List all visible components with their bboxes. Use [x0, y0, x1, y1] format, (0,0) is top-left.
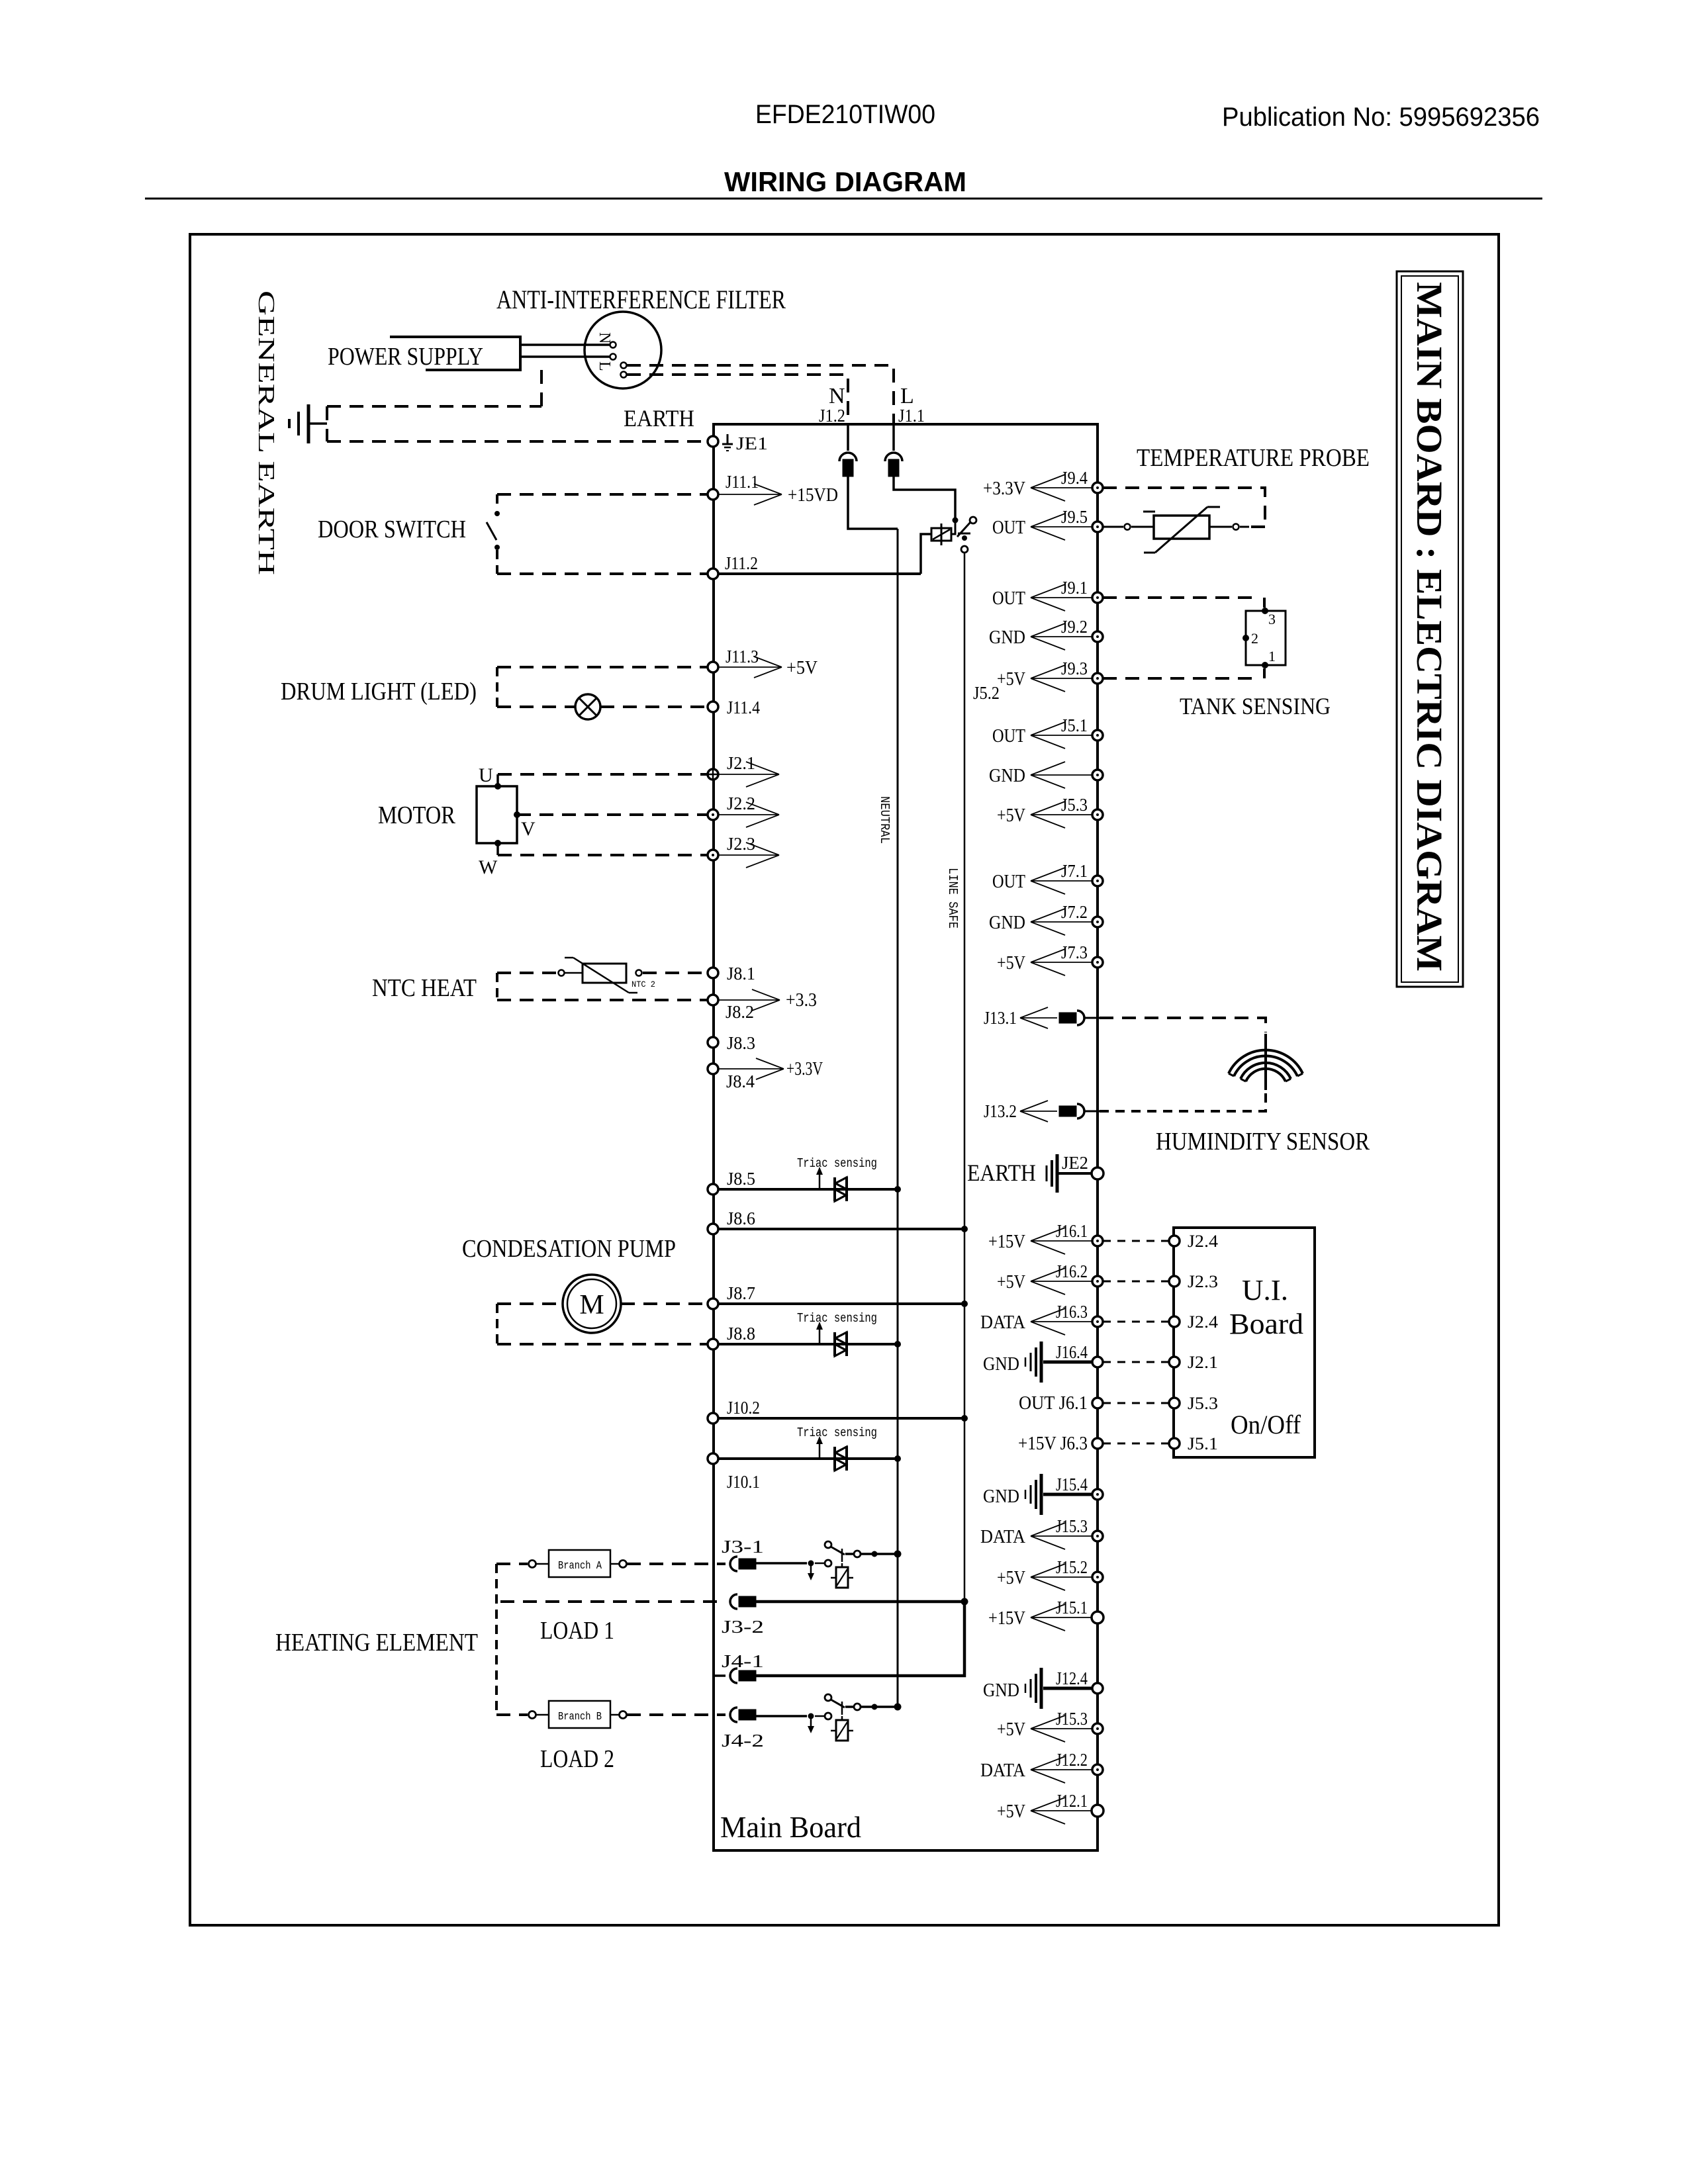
triac gate arrow on row y=2031	[819, 1328, 821, 1344]
arrow at y=1331	[1031, 880, 1092, 882]
anti-interference filter circle	[585, 312, 661, 388]
filter terminal output upper	[621, 363, 627, 369]
arrow at y=1025	[1031, 678, 1092, 679]
svg-text:J8.7: J8.7	[727, 1283, 755, 1303]
terminal J11.4	[708, 702, 718, 712]
svg-text:2: 2	[1251, 630, 1258, 647]
wire L fuse to relay contact	[894, 477, 955, 518]
main board outline	[714, 424, 1098, 1850]
terminal J7.1 y=1331	[1092, 876, 1103, 886]
wire dashed heating left vertical	[495, 1564, 498, 1715]
terminal J10.2	[708, 1413, 718, 1424]
wire dashed branch B to J4-2	[627, 1713, 726, 1716]
svg-text:+15V: +15V	[988, 1232, 1025, 1252]
arrow at y=903	[1031, 597, 1092, 598]
wire dashed power supply earth drop	[540, 370, 543, 406]
wire dashed door switch bottom	[497, 572, 708, 575]
svg-text:J2.4: J2.4	[1188, 1312, 1218, 1332]
svg-text:HEATING ELEMENT: HEATING ELEMENT	[275, 1629, 478, 1657]
svg-text:GND: GND	[989, 913, 1025, 933]
svg-text:J5.3: J5.3	[1061, 795, 1088, 815]
wire dashed J9.3 to tank pin 1	[1103, 677, 1260, 680]
arrow at y=737	[1031, 487, 1092, 488]
wire connector to relay row y=2593	[756, 1715, 807, 1717]
filter terminal output lower	[621, 372, 627, 378]
terminal J12.2 y=2674	[1092, 1764, 1103, 1775]
wire dashed drum light bottom right	[600, 705, 708, 708]
svg-text:J12.1: J12.1	[1056, 1791, 1088, 1811]
svg-text:J8.5: J8.5	[727, 1169, 755, 1189]
svg-text:OUT: OUT	[992, 726, 1025, 747]
svg-text:J15.3: J15.3	[1056, 1709, 1088, 1729]
arrow at y=1936	[1031, 1281, 1092, 1282]
svg-text:DATA: DATA	[980, 1527, 1026, 1547]
svg-text:Triac sensing: Triac sensing	[797, 1311, 877, 1326]
svg-text:EARTH: EARTH	[967, 1160, 1036, 1186]
svg-text:DOOR SWITCH: DOOR SWITCH	[318, 516, 466, 543]
terminal J15.3 y=2612	[1092, 1723, 1103, 1734]
arrow at J2.1	[718, 774, 779, 775]
tank pin 3	[1262, 608, 1268, 614]
wire dashed motor W to J2.3	[498, 854, 708, 856]
svg-text:Triac sensing: Triac sensing	[797, 1156, 877, 1171]
svg-text:J8.1: J8.1	[727, 964, 755, 983]
svg-text:J10.1: J10.1	[727, 1472, 760, 1492]
UI terminal J2.1	[1169, 1357, 1180, 1367]
wire dashed to branch A	[496, 1563, 528, 1565]
svg-text:OUT: OUT	[992, 588, 1025, 609]
terminal J8.5	[708, 1184, 718, 1195]
svg-text:HUMINDITY SENSOR: HUMINDITY SENSOR	[1156, 1128, 1370, 1156]
wire N fuse to neutral rail corner	[848, 477, 898, 529]
wire dashed branch A to J3-1	[627, 1563, 726, 1565]
svg-text:J11.4: J11.4	[727, 698, 760, 717]
terminal J11.1	[708, 489, 718, 500]
humidity sensor B1 arcs	[1229, 1050, 1303, 1073]
UI terminal J2.4	[1169, 1236, 1180, 1246]
svg-text:Board: Board	[1229, 1308, 1303, 1340]
motor node U	[494, 783, 501, 790]
terminal JE2	[1092, 1167, 1103, 1179]
side title box MAIN BOARD : ELECTRIC DIAGRAM	[1397, 271, 1463, 987]
triac symbol on row y=2204	[833, 1447, 836, 1471]
terminal J11.2	[708, 569, 718, 579]
wire dashed drum light left	[496, 667, 498, 707]
svg-text:OUT: OUT	[992, 872, 1025, 892]
svg-text:N: N	[829, 384, 845, 408]
svg-text:J10.2: J10.2	[727, 1398, 760, 1418]
svg-text:J16.4: J16.4	[1056, 1342, 1088, 1362]
svg-text:MAIN BOARD : ELECTRIC DIAGRAM: MAIN BOARD : ELECTRIC DIAGRAM	[1409, 282, 1450, 972]
arrow +3.3 at J8.2	[718, 999, 780, 1001]
svg-text:DATA: DATA	[980, 1312, 1026, 1333]
terminal J15.2 y=2383	[1092, 1572, 1103, 1582]
terminal J8.2	[708, 995, 718, 1005]
wire dashed filter to L column	[627, 365, 894, 424]
connector J3-1	[730, 1557, 737, 1571]
motor node W	[494, 840, 501, 846]
NTC heat sensor RT2	[559, 970, 565, 976]
svg-text:NTC HEAT: NTC HEAT	[372, 974, 477, 1002]
UI terminal J2.4	[1169, 1316, 1180, 1327]
wire dashed main board to UI J2.1	[1103, 1361, 1169, 1363]
arrow at J2.3	[718, 854, 779, 856]
fuse F1 on N line	[839, 453, 857, 461]
wire dashed sensor to J13.2	[1100, 1093, 1266, 1111]
arrow at y=1111	[1031, 735, 1092, 736]
terminal J16.3 y=1997	[1092, 1316, 1103, 1327]
terminal J5.3 y=1231	[1092, 809, 1103, 820]
svg-text:J15.3: J15.3	[1056, 1516, 1088, 1536]
pump motor M2	[563, 1275, 621, 1333]
svg-text:WIRING DIAGRAM: WIRING DIAGRAM	[724, 166, 966, 197]
svg-text:J13.2: J13.2	[984, 1101, 1017, 1121]
terminal J9.3 y=1025	[1092, 673, 1103, 684]
tank pin 1	[1262, 662, 1268, 668]
door switch S1	[496, 494, 498, 510]
svg-text:+15V: +15V	[988, 1608, 1025, 1629]
wire dashed door switch top	[497, 493, 708, 496]
svg-text:TEMPERATURE PROBE: TEMPERATURE PROBE	[1137, 444, 1370, 472]
arrow at y=796	[1031, 526, 1092, 527]
arrow at J13.1	[1020, 1017, 1057, 1019]
UI terminal J2.3	[1169, 1276, 1180, 1287]
tank sensing switch body	[1246, 611, 1286, 665]
arrow at y=2612	[1031, 1728, 1092, 1729]
svg-text:EFDE210TIW00: EFDE210TIW00	[755, 100, 935, 129]
wire dashed filter to N column	[627, 375, 848, 424]
svg-text:J16.3: J16.3	[1056, 1302, 1088, 1322]
terminal J6.1	[1092, 1398, 1103, 1408]
svg-text:J2.3: J2.3	[1188, 1272, 1218, 1291]
svg-text:W: W	[479, 856, 498, 878]
svg-text:J9.1: J9.1	[1061, 578, 1088, 598]
svg-text:+5V: +5V	[997, 1568, 1025, 1588]
wire J10.1 to neutral rail	[718, 1457, 898, 1460]
svg-text:+3.3V: +3.3V	[786, 1059, 823, 1079]
wire dashed J9.1 to tank pin 3	[1103, 596, 1260, 599]
filter terminal L input	[610, 354, 616, 360]
svg-text:N: N	[596, 332, 613, 343]
wire dashed pump left vertical	[496, 1304, 498, 1344]
arrow at y=1454	[1031, 962, 1092, 963]
svg-text:NTC 2: NTC 2	[632, 979, 655, 989]
wire power supply to filter L	[520, 355, 610, 358]
svg-text:Triac sensing: Triac sensing	[797, 1426, 877, 1440]
svg-text:LINE SAFE: LINE SAFE	[945, 868, 960, 929]
wire dashed main board to UI J2.4	[1103, 1240, 1169, 1242]
svg-text:Publication No: 5995692356: Publication No: 5995692356	[1222, 103, 1540, 132]
svg-text:J8.2: J8.2	[726, 1002, 754, 1022]
JE2 earth symbol	[1056, 1154, 1059, 1193]
svg-text:GND: GND	[983, 1354, 1019, 1375]
svg-text:J8.8: J8.8	[727, 1324, 755, 1343]
svg-text:NEUTRAL: NEUTRAL	[877, 796, 892, 844]
svg-text:J9.4: J9.4	[1061, 468, 1088, 488]
svg-text:J12.4: J12.4	[1056, 1668, 1088, 1688]
svg-text:J12.2: J12.2	[1056, 1750, 1088, 1770]
terminal J12.1 y=2736	[1092, 1805, 1103, 1817]
connector J4-1	[730, 1668, 737, 1683]
JE1 ground symbol	[727, 434, 729, 444]
lamp DL1 drum light	[575, 694, 600, 719]
wire motor W stub	[496, 843, 499, 855]
terminal J9.1 y=903	[1092, 592, 1103, 603]
terminal J8.3	[708, 1037, 718, 1048]
general earth symbol	[288, 419, 291, 428]
wire line-safe rail vertical	[964, 553, 966, 1676]
svg-text:J3-2: J3-2	[722, 1617, 764, 1637]
svg-text:J11.2: J11.2	[725, 553, 758, 573]
connector J13.2	[1059, 1106, 1076, 1116]
GND symbol at J12.4	[1040, 1668, 1043, 1709]
wire dashed to branch B	[496, 1713, 528, 1716]
arrow at y=2444	[1031, 1617, 1092, 1618]
svg-text:U: U	[479, 764, 493, 786]
terminal JE1	[708, 436, 718, 447]
wire dashed J9.4 to probe	[1103, 488, 1265, 523]
svg-text:GENERAL EARTH: GENERAL EARTH	[254, 291, 279, 575]
svg-text:POWER SUPPLY: POWER SUPPLY	[328, 343, 483, 371]
svg-text:DRUM LIGHT (LED): DRUM LIGHT (LED)	[281, 678, 477, 705]
wire J8.8 to neutral rail	[718, 1343, 898, 1345]
svg-text:DATA: DATA	[980, 1760, 1026, 1781]
terminal J11.3	[708, 662, 718, 672]
svg-text:J2.4: J2.4	[1188, 1232, 1218, 1251]
connector J3-2	[730, 1594, 737, 1609]
wire dashed J13.1 to sensor	[1100, 1018, 1266, 1032]
svg-text:J15.1: J15.1	[1056, 1598, 1088, 1617]
connector J4-2	[730, 1707, 737, 1722]
arrow at J2.2	[718, 814, 779, 815]
arrow +5V at J11.3	[718, 666, 782, 668]
GND symbol at J16.4	[1040, 1342, 1043, 1383]
svg-text:J1.1: J1.1	[898, 406, 925, 426]
svg-text:+15V J6.3: +15V J6.3	[1018, 1433, 1088, 1454]
terminal J9.5 y=796	[1092, 522, 1103, 532]
arrow +15VD	[718, 494, 782, 495]
arrow at y=2736	[1031, 1810, 1092, 1811]
terminal J16.1 y=1875	[1092, 1236, 1103, 1246]
svg-text:OUT J6.1: OUT J6.1	[1019, 1393, 1088, 1414]
svg-text:+5V: +5V	[997, 953, 1025, 974]
relay contact on row y=2362	[808, 1561, 814, 1567]
wire dashed NTC heat to J8.1	[643, 972, 708, 974]
arrow at y=1171	[1031, 774, 1092, 776]
arrow at y=1997	[1031, 1321, 1092, 1322]
svg-text:V: V	[521, 818, 536, 840]
terminal J15.3 y=2321	[1092, 1531, 1103, 1541]
wire J9.5 to probe	[1103, 526, 1123, 528]
terminal J8.6	[708, 1224, 718, 1234]
svg-text:J8.3: J8.3	[727, 1033, 755, 1053]
relay coil on row y=2593	[841, 1716, 843, 1720]
svg-text:J15.4: J15.4	[1056, 1475, 1088, 1494]
svg-text:J11.3: J11.3	[726, 647, 759, 666]
svg-text:J5.3: J5.3	[1188, 1394, 1218, 1413]
wire dashed main board to UI J2.4	[1103, 1321, 1169, 1323]
svg-text:EARTH: EARTH	[624, 405, 694, 432]
wire dashed earth vertical link	[326, 406, 328, 441]
wire motor U stub	[496, 774, 499, 786]
wire line-safe to J4-1 thick	[756, 1602, 964, 1676]
wire connector to relay row y=2362	[756, 1562, 807, 1565]
arrow at y=2383	[1031, 1576, 1092, 1578]
wire J8.6 to line-safe rail	[718, 1228, 964, 1230]
svg-text:LOAD 2: LOAD 2	[540, 1745, 614, 1773]
terminal J5.1 y=1111	[1092, 730, 1103, 741]
svg-text:J4-1: J4-1	[722, 1651, 764, 1671]
svg-text:3: 3	[1268, 611, 1276, 627]
fuse F2 on L line	[885, 453, 902, 461]
relay K1 coil	[931, 528, 951, 541]
wire dashed main board to UI J5.1	[1103, 1443, 1169, 1445]
svg-text:GND: GND	[983, 1486, 1019, 1507]
terminal J8.1	[708, 968, 718, 978]
power supply box	[390, 337, 520, 370]
relay coil on row y=2362	[841, 1563, 843, 1567]
wire dashed LOAD1 row to J3-2	[500, 1600, 726, 1603]
terminal J9.4 y=737	[1092, 482, 1103, 493]
terminal J8.4	[708, 1064, 718, 1074]
GND symbol at J15.4	[1040, 1474, 1043, 1515]
svg-text:Branch A: Branch A	[558, 1560, 602, 1572]
svg-text:M: M	[579, 1290, 604, 1320]
wire relay coil left to J11.2 net	[921, 534, 931, 574]
wire dashed main board to UI J5.3	[1103, 1402, 1169, 1404]
terminal J2.3	[708, 850, 718, 860]
svg-text:J3-1: J3-1	[722, 1537, 764, 1557]
terminal J7.3 y=1454	[1092, 957, 1103, 968]
svg-text:1: 1	[1268, 648, 1276, 664]
svg-text:L: L	[596, 361, 613, 371]
temperature probe NTC RT1	[1125, 524, 1131, 530]
wire dashed earth horizontal run	[327, 405, 541, 408]
svg-text:LOAD 1: LOAD 1	[540, 1617, 614, 1645]
wire dashed pump left	[497, 1302, 563, 1305]
outer border frame	[190, 234, 1499, 1925]
svg-text:J5.1: J5.1	[1188, 1434, 1218, 1453]
motor M1 body	[477, 786, 517, 843]
wire dashed main board to UI J2.3	[1103, 1281, 1169, 1283]
arrow +3.3V at J8.4	[718, 1068, 784, 1069]
svg-text:J1.2: J1.2	[819, 406, 845, 426]
svg-text:+15VD: +15VD	[788, 485, 838, 506]
svg-text:J15.2: J15.2	[1056, 1557, 1088, 1577]
svg-text:+5V: +5V	[997, 1719, 1025, 1740]
svg-text:J11.1: J11.1	[726, 472, 759, 492]
svg-text:J16.2: J16.2	[1056, 1261, 1088, 1281]
wire J10.2 to line-safe rail	[718, 1417, 964, 1420]
terminal J16.2 y=1936	[1092, 1276, 1103, 1287]
terminal J9.2 y=962	[1092, 631, 1103, 642]
svg-text:+5V: +5V	[997, 669, 1025, 690]
svg-text:ANTI-INTERFERENCE FILTER: ANTI-INTERFERENCE FILTER	[496, 285, 786, 314]
terminal J6.3	[1092, 1438, 1103, 1449]
U.I. board outline	[1174, 1228, 1315, 1457]
wire dashed motor V to J2.2	[517, 813, 708, 816]
wire L column into board	[892, 424, 895, 451]
terminal GND y=1171	[1092, 770, 1103, 780]
wire N column into board	[847, 424, 849, 451]
svg-text:J13.1: J13.1	[984, 1008, 1017, 1028]
terminal J7.2 y=1393	[1092, 917, 1103, 927]
triac symbol on row y=2031	[833, 1332, 836, 1356]
wire J8.7 to line-safe rail	[718, 1302, 964, 1305]
tank pin 2	[1243, 635, 1249, 641]
svg-text:Main Board: Main Board	[720, 1810, 861, 1844]
wire power supply to filter N	[520, 343, 610, 346]
svg-text:Branch B: Branch B	[558, 1711, 602, 1723]
svg-text:+5V: +5V	[786, 658, 818, 678]
terminal J8.7	[708, 1298, 718, 1309]
wire dashed motor U to J2.1	[498, 773, 708, 776]
branch A thermostat	[529, 1561, 536, 1568]
svg-text:J9.3: J9.3	[1061, 659, 1088, 678]
branch B thermostat	[529, 1711, 536, 1719]
arrow at y=1231	[1031, 814, 1092, 815]
wire dashed NTC heat left vertical	[496, 973, 498, 1000]
wire J11.2 to relay coil	[718, 572, 921, 575]
svg-text:On/Off: On/Off	[1231, 1410, 1301, 1439]
terminal J16.4	[1092, 1357, 1103, 1367]
wire dashed probe elbow	[1251, 525, 1265, 528]
wire dashed pump right to J8.7	[621, 1302, 708, 1305]
svg-text:+5V: +5V	[997, 1801, 1025, 1822]
UI terminal J5.1	[1169, 1438, 1180, 1449]
svg-text:GND: GND	[983, 1680, 1019, 1701]
terminal J2.1	[708, 769, 718, 780]
connector J13.1	[1059, 1013, 1076, 1023]
arrow at y=1393	[1031, 921, 1092, 923]
svg-text:+5V: +5V	[997, 1272, 1025, 1293]
svg-text:J7.1: J7.1	[1061, 861, 1088, 881]
svg-text:J9.5: J9.5	[1061, 507, 1088, 527]
terminal J2.2	[708, 809, 718, 820]
svg-text:J4-2: J4-2	[722, 1731, 764, 1751]
filter terminal N input	[610, 342, 616, 348]
svg-text:J5.2: J5.2	[973, 683, 1000, 703]
wire J8.5 to neutral rail	[718, 1188, 898, 1191]
terminal J15.4	[1092, 1489, 1103, 1500]
arrow at y=1875	[1031, 1240, 1092, 1242]
svg-text:GND: GND	[989, 766, 1025, 786]
svg-text:JE1: JE1	[736, 433, 768, 453]
arrow at y=2674	[1031, 1769, 1092, 1770]
svg-text:L: L	[900, 384, 914, 408]
wire dashed drum light top	[497, 666, 708, 668]
motor node V	[514, 811, 520, 818]
triac symbol on row y=1797	[833, 1177, 836, 1201]
svg-text:GND: GND	[989, 627, 1025, 648]
svg-text:CONDESATION PUMP: CONDESATION PUMP	[462, 1235, 676, 1263]
terminal J8.8	[708, 1339, 718, 1349]
arrow at y=962	[1031, 636, 1092, 637]
svg-text:+3.3V: +3.3V	[983, 478, 1025, 499]
arrow at J13.2	[1020, 1111, 1057, 1112]
header rule line	[145, 198, 1542, 200]
wire J3-2 to line-safe rail thick	[756, 1600, 964, 1604]
svg-text:J7.3: J7.3	[1061, 942, 1088, 962]
svg-text:+3.3: +3.3	[786, 990, 817, 1011]
triac gate arrow on row y=1797	[819, 1173, 821, 1189]
wire relay coil right stub	[951, 523, 955, 534]
svg-text:TANK SENSING: TANK SENSING	[1180, 693, 1331, 719]
triac gate arrow on row y=2204	[819, 1443, 821, 1459]
svg-text:J7.2: J7.2	[1061, 902, 1088, 922]
svg-text:J9.2: J9.2	[1061, 617, 1088, 637]
wire dashed general earth to JE1	[327, 440, 708, 443]
